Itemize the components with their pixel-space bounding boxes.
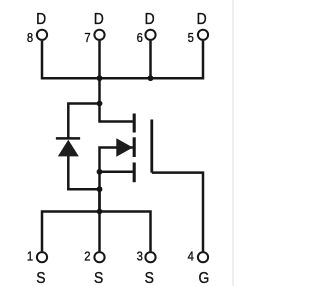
wire: pin2 drop from source rail to pin circle [98,189,101,251]
D1 anode triangle [58,140,79,157]
pin 4 circle [198,252,208,262]
node: pin7/bus junction [97,75,103,81]
pin terminals [37,30,208,263]
svg-text:8: 8 [27,30,34,45]
wire: pin7 drop through bus down to drain corner [100,41,133,122]
svg-text:6: 6 [137,30,144,45]
wire: top bus D rail with pin8 and pin5 drops [42,41,203,79]
wire: diode bottom branch from anode to source node [68,156,99,190]
node: pin6/bus junction [148,75,154,81]
wire: source lead from bottom channel bar [100,171,133,174]
svg-text:5: 5 [188,30,195,45]
D1 cathode bar [56,137,80,140]
svg-text:3: 3 [137,249,144,264]
Q1 source contact bar [133,163,136,183]
diode D1 body diode [56,138,80,156]
wire: pin6 drop to bus [149,41,152,79]
node: pin2/bottom bus junction [97,209,103,215]
pin 3 circle [145,252,155,262]
wire: diode top branch from node to cathode [68,104,99,138]
wire: body connection and vertical source rail [100,148,133,212]
node: diode anode tap [97,186,103,192]
svg-text:S: S [36,270,45,286]
Q1 drain contact bar [133,114,136,133]
svg-text:4: 4 [188,249,195,264]
faint scan line right edge [232,0,233,286]
svg-text:2: 2 [84,249,91,264]
node: source lead junction [97,169,103,175]
svg-text:D: D [197,11,207,28]
svg-text:D: D [36,11,46,28]
svg-text:1: 1 [27,249,34,264]
pin 1 circle [37,252,47,262]
node: diode cathode tap [97,101,103,107]
svg-text:G: G [198,270,209,286]
svg-text:S: S [94,270,103,286]
pin 2 circle [94,252,104,262]
svg-text:D: D [94,11,104,28]
pin 7 circle [94,30,104,40]
pin 5 circle [198,30,208,40]
Q1 gate bar [150,120,153,173]
junction dots [97,75,154,214]
svg-text:S: S [145,270,154,286]
pin 8 circle [37,30,47,40]
Q1 body arrow [116,138,133,157]
svg-text:D: D [145,11,155,28]
pin 6 circle [145,30,155,40]
Q1 body contact bar [133,137,136,157]
svg-text:7: 7 [84,30,91,45]
wire: gate lead down to pin4 [152,173,203,252]
wire: bottom bus S rail with pin1 and pin3 drops [42,212,151,252]
transistor Q1 N-channel MOSFET [116,114,152,183]
